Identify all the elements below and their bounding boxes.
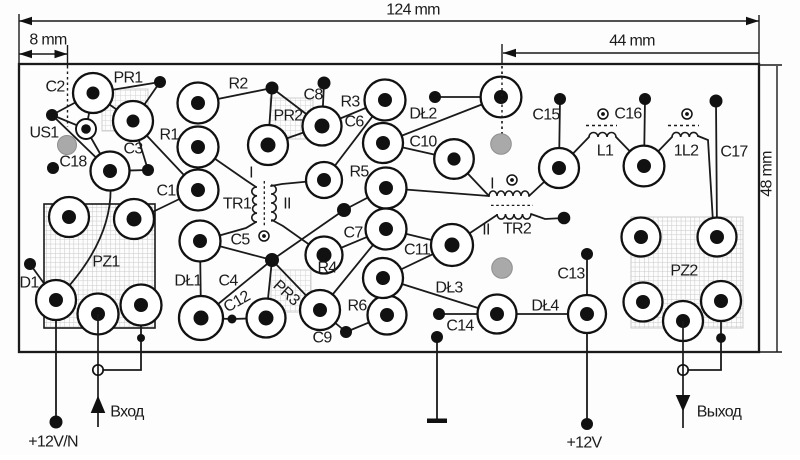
svg-text:C17: C17 <box>720 144 748 161</box>
svg-text:44 mm: 44 mm <box>609 33 655 50</box>
svg-text:C2: C2 <box>45 79 65 96</box>
svg-text:DŁ4: DŁ4 <box>531 298 559 315</box>
svg-text:R6: R6 <box>347 298 367 315</box>
svg-text:R3: R3 <box>340 94 360 111</box>
svg-text:C18: C18 <box>59 154 87 171</box>
svg-text:C4: C4 <box>218 273 238 290</box>
svg-text:C10: C10 <box>409 134 437 151</box>
svg-text:+12V: +12V <box>566 435 602 452</box>
svg-text:Вход: Вход <box>110 404 145 421</box>
svg-text:C13: C13 <box>557 266 585 283</box>
svg-text:R4: R4 <box>317 260 337 277</box>
svg-text:II: II <box>482 222 490 239</box>
svg-text:8 mm: 8 mm <box>29 32 67 49</box>
svg-text:C15: C15 <box>532 107 560 124</box>
svg-text:II: II <box>283 196 291 213</box>
svg-text:C6: C6 <box>344 114 364 131</box>
svg-text:DŁ2: DŁ2 <box>409 106 437 123</box>
svg-text:L1: L1 <box>597 143 614 160</box>
svg-text:PR1: PR1 <box>113 70 143 87</box>
svg-text:DŁ1: DŁ1 <box>174 273 202 290</box>
svg-text:I: I <box>249 165 253 182</box>
svg-text:US1: US1 <box>29 125 59 142</box>
svg-text:D1: D1 <box>19 275 39 292</box>
svg-text:R5: R5 <box>349 164 369 181</box>
svg-text:C5: C5 <box>230 232 250 249</box>
svg-text:C3: C3 <box>123 141 143 158</box>
svg-text:R1: R1 <box>159 127 179 144</box>
svg-text:48 mm: 48 mm <box>759 151 776 197</box>
svg-text:PR2: PR2 <box>273 108 303 125</box>
svg-text:DŁ3: DŁ3 <box>435 280 463 297</box>
svg-text:124 mm: 124 mm <box>386 2 440 19</box>
svg-text:C16: C16 <box>614 106 642 123</box>
svg-text:C7: C7 <box>343 225 363 242</box>
svg-text:C11: C11 <box>404 242 431 259</box>
svg-text:I: I <box>490 176 494 193</box>
svg-text:1L2: 1L2 <box>674 143 699 160</box>
svg-text:PZ2: PZ2 <box>670 263 698 280</box>
svg-text:C1: C1 <box>156 183 176 200</box>
svg-text:C8: C8 <box>303 87 323 104</box>
svg-text:+12V/N: +12V/N <box>28 434 78 451</box>
svg-text:Выход: Выход <box>697 404 743 421</box>
svg-text:R2: R2 <box>228 76 248 93</box>
svg-text:TR2: TR2 <box>503 221 532 238</box>
svg-text:C9: C9 <box>312 330 332 347</box>
svg-text:PZ1: PZ1 <box>92 254 120 271</box>
svg-text:C14: C14 <box>446 318 474 335</box>
svg-text:TR1: TR1 <box>223 196 252 213</box>
